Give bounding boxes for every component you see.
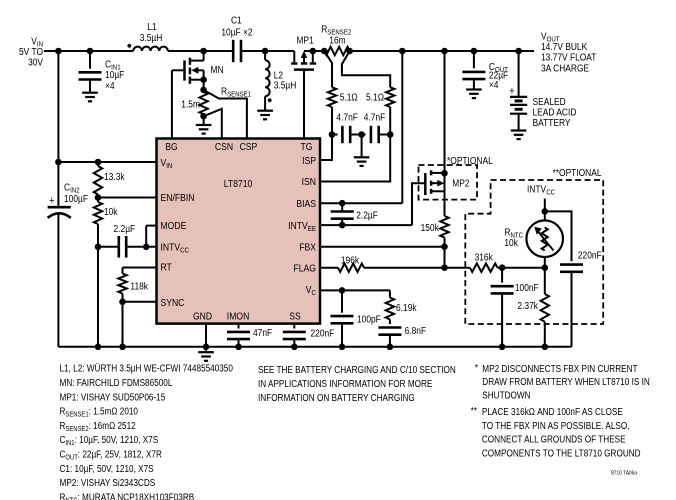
svg-text:+: +	[509, 86, 514, 98]
svg-text:5.1Ω: 5.1Ω	[366, 93, 384, 104]
svg-text:220nF: 220nF	[578, 251, 602, 262]
svg-text:13.77V FLOAT: 13.77V FLOAT	[541, 53, 596, 64]
svg-text:2.37k: 2.37k	[517, 301, 538, 312]
svg-text:30V: 30V	[28, 58, 43, 69]
svg-text:100nF: 100nF	[515, 283, 539, 294]
svg-text:BATTERY: BATTERY	[533, 118, 571, 129]
svg-text:MN: FAIRCHILD FDMS86500L: MN: FAIRCHILD FDMS86500L	[60, 378, 173, 389]
svg-text:SS: SS	[289, 311, 301, 322]
svg-text:CC: CC	[546, 188, 555, 197]
svg-text:: 22µF, 25V, 1812, X7R: : 22µF, 25V, 1812, X7R	[78, 450, 162, 461]
svg-text:PLACE 316kΩ AND 100nF AS CLOSE: PLACE 316kΩ AND 100nF AS CLOSE	[482, 407, 623, 418]
svg-text:EN/FBIN: EN/FBIN	[161, 193, 195, 204]
svg-text:10µF ×2: 10µF ×2	[221, 27, 253, 38]
svg-text:ISN: ISN	[302, 177, 316, 188]
svg-text:TO THE FBX PIN AS POSSIBLE. AL: TO THE FBX PIN AS POSSIBLE. ALSO,	[482, 421, 630, 432]
svg-text:6.19k: 6.19k	[396, 303, 417, 314]
svg-text:SEE THE BATTERY CHARGING AND C: SEE THE BATTERY CHARGING AND C/10 SECTIO…	[258, 365, 456, 376]
svg-text:2.2µF: 2.2µF	[356, 211, 378, 222]
svg-text:L1, L2: WÜRTH 3.5µH WE-CFWI 74: L1, L2: WÜRTH 3.5µH WE-CFWI 74485540350	[60, 364, 234, 375]
svg-text:BG: BG	[165, 142, 177, 153]
svg-text:EE: EE	[308, 224, 316, 233]
svg-text:LT8710: LT8710	[224, 179, 253, 190]
svg-text:SENSE1: SENSE1	[227, 90, 251, 99]
svg-text:ISP: ISP	[302, 156, 316, 167]
svg-text:10k: 10k	[104, 207, 118, 218]
svg-text:INTV: INTV	[161, 243, 181, 254]
svg-text:C1: C1	[231, 16, 242, 27]
svg-text:COMPONENTS TO THE LT8710 GROUN: COMPONENTS TO THE LT8710 GROUND	[482, 449, 641, 460]
svg-text:BIAS: BIAS	[296, 199, 316, 210]
svg-text:L1: L1	[147, 22, 157, 33]
svg-text:150k: 150k	[421, 223, 440, 234]
svg-text:4.7nF: 4.7nF	[336, 113, 358, 124]
svg-text:C: C	[312, 288, 317, 297]
svg-text:10µF: 10µF	[105, 70, 124, 81]
svg-text:5V TO: 5V TO	[19, 47, 43, 58]
svg-text:3A CHARGE: 3A CHARGE	[541, 63, 589, 74]
svg-text:SENSE1: SENSE1	[65, 412, 88, 419]
svg-text:IN1: IN1	[65, 440, 74, 447]
svg-text:*OPTIONAL: *OPTIONAL	[447, 156, 493, 167]
svg-text:CSN: CSN	[215, 142, 233, 153]
svg-text:SEALED: SEALED	[533, 97, 566, 108]
svg-text:CSP: CSP	[240, 142, 258, 153]
svg-text:: MURATA NCP18XH103F03RB: : MURATA NCP18XH103F03RB	[78, 492, 195, 500]
svg-text:INTV: INTV	[288, 221, 308, 232]
svg-text:SYNC: SYNC	[161, 298, 185, 309]
svg-text:16m: 16m	[329, 35, 345, 46]
svg-text:13.3k: 13.3k	[104, 172, 125, 183]
svg-text:100pF: 100pF	[357, 315, 381, 326]
svg-text:196k: 196k	[341, 256, 360, 267]
svg-text:MP2 DISCONNECTS FBX PIN CURREN: MP2 DISCONNECTS FBX PIN CURRENT	[482, 364, 637, 375]
svg-text:INFORMATION ON BATTERY CHARGIN: INFORMATION ON BATTERY CHARGING	[258, 393, 415, 404]
svg-text:+: +	[49, 195, 54, 207]
svg-text:14.7V BULK: 14.7V BULK	[541, 42, 587, 53]
svg-text:5.1Ω: 5.1Ω	[340, 93, 358, 104]
svg-text:OUT: OUT	[65, 454, 78, 461]
svg-text:**OPTIONAL: **OPTIONAL	[553, 168, 602, 179]
svg-text:2.2µF: 2.2µF	[114, 224, 136, 235]
svg-text:SENSE2: SENSE2	[65, 426, 88, 433]
svg-text:3.5µH: 3.5µH	[140, 33, 163, 44]
svg-text:6.8nF: 6.8nF	[405, 326, 427, 337]
svg-text:118k: 118k	[130, 281, 148, 292]
svg-text:4.7nF: 4.7nF	[364, 113, 386, 124]
svg-text:FLAG: FLAG	[294, 263, 317, 274]
svg-text:47nF: 47nF	[253, 328, 272, 339]
svg-text:TG: TG	[301, 142, 313, 153]
svg-text:FBX: FBX	[299, 242, 316, 253]
svg-text:: 16mΩ 2512: : 16mΩ 2512	[89, 421, 136, 432]
svg-text:10k: 10k	[504, 238, 518, 249]
svg-text:CONNECT ALL GROUNDS OF THESE: CONNECT ALL GROUNDS OF THESE	[482, 435, 626, 446]
svg-text:: 1.5mΩ 2010: : 1.5mΩ 2010	[89, 407, 139, 418]
svg-text:316k: 316k	[475, 253, 494, 264]
svg-text:GND: GND	[193, 311, 212, 322]
svg-text:IMON: IMON	[227, 311, 250, 322]
svg-text:MP2: VISHAY Si2343CDS: MP2: VISHAY Si2343CDS	[60, 478, 156, 489]
svg-text:3.5µH: 3.5µH	[274, 81, 297, 92]
svg-text:INTV: INTV	[527, 185, 546, 196]
svg-text:MP1: MP1	[296, 36, 314, 47]
svg-text:×4: ×4	[105, 81, 115, 92]
svg-text:DRAW FROM BATTERY WHEN LT8710: DRAW FROM BATTERY WHEN LT8710 IS IN	[482, 377, 650, 388]
svg-text:×4: ×4	[489, 80, 499, 91]
svg-text:MP1: VISHAY SUD50P06-15: MP1: VISHAY SUD50P06-15	[60, 392, 166, 403]
svg-text:100µF: 100µF	[64, 194, 88, 205]
svg-text:MP2: MP2	[452, 179, 470, 190]
svg-text:RT: RT	[161, 263, 172, 274]
svg-text:CC: CC	[180, 246, 189, 255]
svg-text:SHUTDOWN: SHUTDOWN	[482, 390, 530, 401]
svg-text:MN: MN	[211, 65, 224, 76]
svg-text:1.5m: 1.5m	[181, 100, 200, 111]
svg-text:220nF: 220nF	[311, 328, 335, 339]
svg-text:8710 TA06a: 8710 TA06a	[611, 471, 638, 477]
svg-text:MODE: MODE	[161, 221, 187, 232]
svg-text:**: **	[471, 406, 478, 417]
svg-text:*: *	[475, 363, 478, 374]
svg-text:C1: 10µF, 50V, 1210, X7S: C1: 10µF, 50V, 1210, X7S	[60, 464, 154, 475]
svg-text:: 10µF, 50V, 1210, X7S: : 10µF, 50V, 1210, X7S	[75, 435, 159, 446]
svg-text:IN APPLICATIONS INFORMATION FO: IN APPLICATIONS INFORMATION FOR MORE	[258, 379, 433, 390]
svg-text:IN: IN	[166, 161, 172, 170]
